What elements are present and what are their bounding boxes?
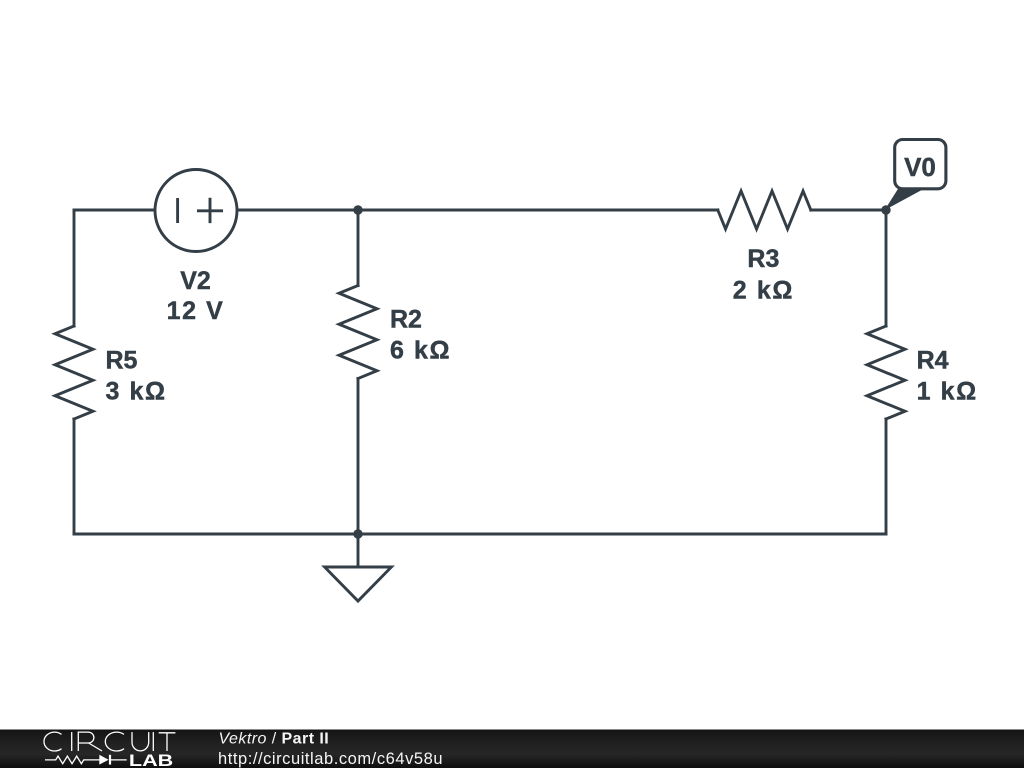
- node flag V0 box: [895, 140, 946, 189]
- node junction at V0/R3/R4: [881, 205, 890, 214]
- svg-text:R4: R4: [917, 346, 949, 374]
- wire left vertical lower: [73, 419, 76, 534]
- ground symbol: [325, 567, 392, 601]
- svg-text:2 kΩ: 2 kΩ: [733, 277, 794, 305]
- svg-text:LAB: LAB: [129, 751, 173, 768]
- svg-text:R2: R2: [390, 306, 422, 334]
- svg-text:1 kΩ: 1 kΩ: [917, 378, 978, 406]
- resistor R3: [718, 191, 811, 229]
- svg-text:V2: V2: [180, 267, 211, 295]
- svg-text:6 kΩ: 6 kΩ: [390, 337, 451, 365]
- svg-text:R5: R5: [106, 346, 138, 374]
- wire R2 branch upper: [357, 210, 360, 286]
- footer bar: [0, 730, 1024, 768]
- node flag V0 tail: [885, 185, 923, 210]
- wire left vertical upper: [73, 210, 76, 326]
- wire bottom: [74, 533, 886, 536]
- svg-text:12 V: 12 V: [167, 297, 225, 325]
- svg-text:http://circuitlab.com/c64v58u: http://circuitlab.com/c64v58u: [218, 750, 443, 768]
- logo resistor-diode symbol: [45, 755, 127, 765]
- ground stem wire: [357, 534, 360, 567]
- resistor R4: [867, 326, 905, 419]
- wire right vertical upper: [885, 210, 888, 326]
- svg-text:3 kΩ: 3 kΩ: [106, 378, 167, 406]
- svg-text:Vektro / Part II: Vektro / Part II: [219, 731, 330, 748]
- node junction at V2/R2: [353, 205, 362, 214]
- voltage source V2: [155, 170, 237, 252]
- wire top-right from R3 to node V0: [811, 209, 886, 212]
- logo CIRCUIT wordmark: [44, 732, 175, 751]
- resistor R5: [55, 326, 93, 419]
- svg-text:V0: V0: [904, 152, 936, 182]
- wire top-left from R5 to V2: [74, 209, 155, 212]
- wire R2 branch lower: [357, 379, 360, 535]
- node junction at ground: [353, 529, 362, 538]
- resistor R2: [339, 286, 377, 379]
- wire right vertical lower: [885, 419, 888, 534]
- wire top-middle from V2 to R3: [237, 209, 718, 212]
- svg-text:R3: R3: [747, 245, 779, 273]
